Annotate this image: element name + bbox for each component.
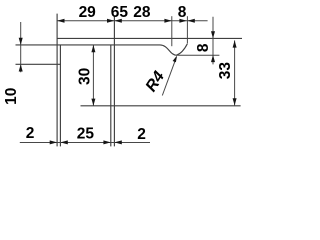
left leg outer face (extended up and down as extension line) [56, 14, 58, 147]
groove bottom extension line [177, 54, 220, 56]
bottom dimension line [20, 142, 150, 144]
arrow 30 top (up) [91, 45, 95, 52]
arrow 25 right / 2 right [103, 140, 110, 144]
R4 leader line [162, 57, 176, 95]
groove right extension line / end face [186, 16, 188, 43]
arrow 65 right [179, 19, 186, 23]
svg-text:29: 29 [79, 4, 97, 21]
svg-text:28: 28 [133, 4, 151, 21]
arrow 2 left / 25 left [60, 140, 67, 144]
arrow 2 left outside-left [50, 140, 57, 144]
svg-text:2: 2 [26, 125, 35, 142]
groove left extension line [171, 16, 173, 46]
dim line 30 [92, 45, 94, 106]
arrow 8 right bottom (up) [211, 55, 215, 62]
arrow 29 right [107, 19, 114, 23]
arrow 2 right outside-right [114, 140, 121, 144]
svg-text:10: 10 [3, 88, 20, 105]
dim line 10 [20, 22, 22, 72]
top dimension line [57, 20, 208, 22]
arrow 30 bottom (down) [91, 99, 95, 106]
dim line 8 right [212, 17, 214, 65]
svg-text:2: 2 [137, 126, 146, 143]
second leg right face (extended up and down) [113, 16, 115, 147]
second leg left face (extended down) [110, 45, 112, 146]
bottom edge with extensions [81, 105, 241, 107]
arrow 28 left [114, 19, 121, 23]
arrow 10 top (down) [19, 38, 23, 45]
left leg bottom edge with left extension [16, 63, 61, 65]
underside edge with S-curve into groove and R4 arc up to end face [16, 44, 188, 55]
arrow R4 leader [173, 56, 177, 63]
svg-text:65: 65 [111, 4, 129, 21]
svg-text:8: 8 [178, 4, 187, 21]
svg-text:33: 33 [217, 62, 234, 80]
arrow 8 right outside [187, 19, 194, 23]
arrow 28 right / 8 left [164, 19, 171, 23]
arrow 10 bottom (up) [19, 64, 23, 71]
arrow 33 top (up) [233, 40, 237, 47]
arrow 29 left [57, 19, 64, 23]
left leg inner face (extended down as extension line) [59, 45, 61, 146]
arrow 8 right top (down) [211, 31, 215, 38]
top surface edge with right extension [57, 37, 242, 39]
svg-text:25: 25 [77, 126, 95, 143]
svg-text:8: 8 [195, 43, 212, 52]
svg-text:30: 30 [76, 68, 93, 85]
arrow 33 bottom (down) [233, 98, 237, 105]
dim line 33 [234, 40, 236, 105]
